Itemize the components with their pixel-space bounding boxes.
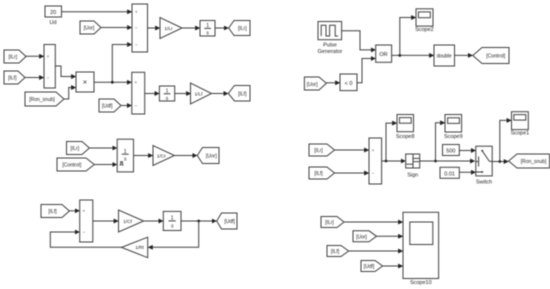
svg-text:−: − [134,103,137,108]
svg-text:20: 20 [50,10,56,16]
svg-text:[ILr]: [ILr] [325,220,334,226]
svg-text:[Uor]: [Uor] [206,154,217,160]
svg-text:[ILr]: [ILr] [238,26,247,32]
svg-text:[Ron_snub]: [Ron_snub] [521,159,547,165]
svg-text:500: 500 [446,149,455,155]
svg-text:+: + [135,10,138,15]
svg-text:Scope2: Scope2 [415,27,434,33]
svg-text:1/Rl: 1/Rl [135,245,144,251]
svg-text:[Uor]: [Uor] [84,26,95,32]
svg-text:1/Cr: 1/Cr [157,153,166,159]
svg-text:[Uor]: [Uor] [356,234,367,240]
svg-text:Sign: Sign [407,172,418,178]
svg-text:Scope1: Scope1 [511,131,530,137]
svg-text:+: + [372,148,375,153]
svg-text:[ILf]: [ILf] [238,92,247,98]
svg-text:[ILr]: [ILr] [314,148,323,154]
svg-text:Switch: Switch [476,180,492,186]
svg-text:double: double [437,53,452,59]
svg-text:−: − [47,75,50,80]
svg-text:−: − [372,171,375,176]
svg-text:[Ron_snub]: [Ron_snub] [29,97,55,103]
svg-text:Scope10: Scope10 [410,280,432,286]
svg-text:+: + [47,54,50,59]
svg-text:−: − [83,230,86,235]
svg-text:Scope9: Scope9 [444,134,463,140]
svg-text:OR: OR [379,52,387,58]
svg-text:[ILf]: [ILf] [8,76,17,82]
svg-text:0.01: 0.01 [444,171,455,177]
svg-text:+: + [134,80,137,85]
svg-text:Generator: Generator [318,49,343,55]
svg-text:Scope8: Scope8 [396,134,415,140]
svg-text:1/Lr: 1/Lr [164,26,173,32]
svg-text:[Udf]: [Udf] [224,219,235,225]
svg-text:+: + [83,209,86,214]
svg-text:[Control]: [Control] [486,54,506,60]
svg-text:Pulse: Pulse [323,43,337,49]
svg-text:[Control]: [Control] [62,163,82,169]
svg-text:−: − [135,42,138,47]
svg-text:[Uor]: [Uor] [307,82,318,88]
svg-text:[Udf]: [Udf] [102,104,113,110]
svg-text:1/Lf: 1/Lf [194,91,203,97]
svg-text:[ILf]: [ILf] [331,249,340,255]
svg-text:−: − [135,25,138,30]
svg-text:[ILr]: [ILr] [8,55,17,61]
svg-text:[ILf]: [ILf] [314,171,323,177]
svg-text:< 0: < 0 [345,81,353,87]
svg-text:1/Cf: 1/Cf [123,219,132,225]
svg-text:[ILr]: [ILr] [70,146,79,152]
svg-text:[ILf]: [ILf] [48,209,57,215]
svg-text:×: × [83,78,87,87]
svg-text:Ud: Ud [49,20,56,26]
svg-text:[Udf]: [Udf] [364,264,375,270]
